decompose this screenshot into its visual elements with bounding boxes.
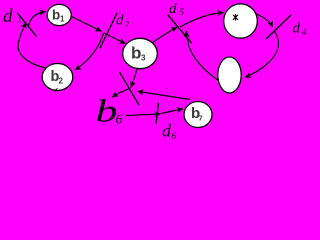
svg-text:b: b (96, 94, 118, 129)
node b7 (184, 102, 212, 128)
cut tick d6 (156, 103, 159, 124)
svg-text:7: 7 (199, 114, 203, 123)
cut slash d1 (17, 13, 37, 37)
wire: redirect from cut d2 into node b2 (75, 33, 104, 70)
cut slash on b3-b6 edge (120, 72, 140, 105)
svg-text:1: 1 (18, 16, 22, 25)
svg-text:d: d (162, 121, 172, 141)
node b1 (47, 4, 71, 25)
wire: edge b1 to cut d2 (71, 16, 102, 31)
svg-text:d: d (3, 6, 13, 27)
wire: cut d5 to star node (180, 13, 224, 28)
svg-text:1: 1 (60, 15, 65, 24)
svg-text:d: d (116, 13, 124, 29)
wire: cut d4 to tall ellipse (245, 31, 278, 78)
node tall ellipse (218, 57, 241, 93)
svg-text:d: d (169, 1, 177, 17)
cut slash d5 (168, 15, 192, 44)
svg-text:d: d (293, 21, 301, 37)
node b2 (42, 64, 73, 91)
cut slash d4 (266, 15, 291, 39)
svg-text:2: 2 (125, 20, 129, 29)
wire: edge b3 to cut d5 (152, 27, 177, 43)
wire: cut d6 to node b7 (161, 109, 183, 114)
wire: cut to arrow pointing at b6 (112, 89, 130, 98)
svg-text:2: 2 (59, 77, 64, 86)
wire: arrow from b7 to cut junction (138, 91, 191, 99)
node star (224, 4, 258, 38)
wire: edge star to cut d4 (256, 14, 273, 27)
svg-text:b: b (131, 44, 141, 63)
svg-text:4: 4 (302, 27, 307, 37)
svg-text:3: 3 (141, 54, 146, 63)
node b3 (middle) (123, 38, 158, 68)
nub arrowhead at bottom of b2 (53, 88, 58, 92)
wire: arrow from tall ellipse up to cut edge (187, 31, 219, 81)
wire: edge b2 to cut d1 (left loop stub) (18, 23, 46, 69)
wire: edge b3 down to cut (unlabeled) (131, 69, 137, 88)
wire: cut d1 to node b1 (29, 12, 46, 27)
svg-text:6: 6 (172, 131, 177, 141)
cut slash d2 (100, 13, 117, 48)
wire: cut d2 to node b3 (104, 33, 126, 44)
svg-text:5: 5 (180, 7, 185, 17)
svg-text:6: 6 (116, 113, 123, 128)
wire: edge b6 to cut d6 (126, 114, 161, 116)
svg-text:b: b (52, 8, 60, 23)
